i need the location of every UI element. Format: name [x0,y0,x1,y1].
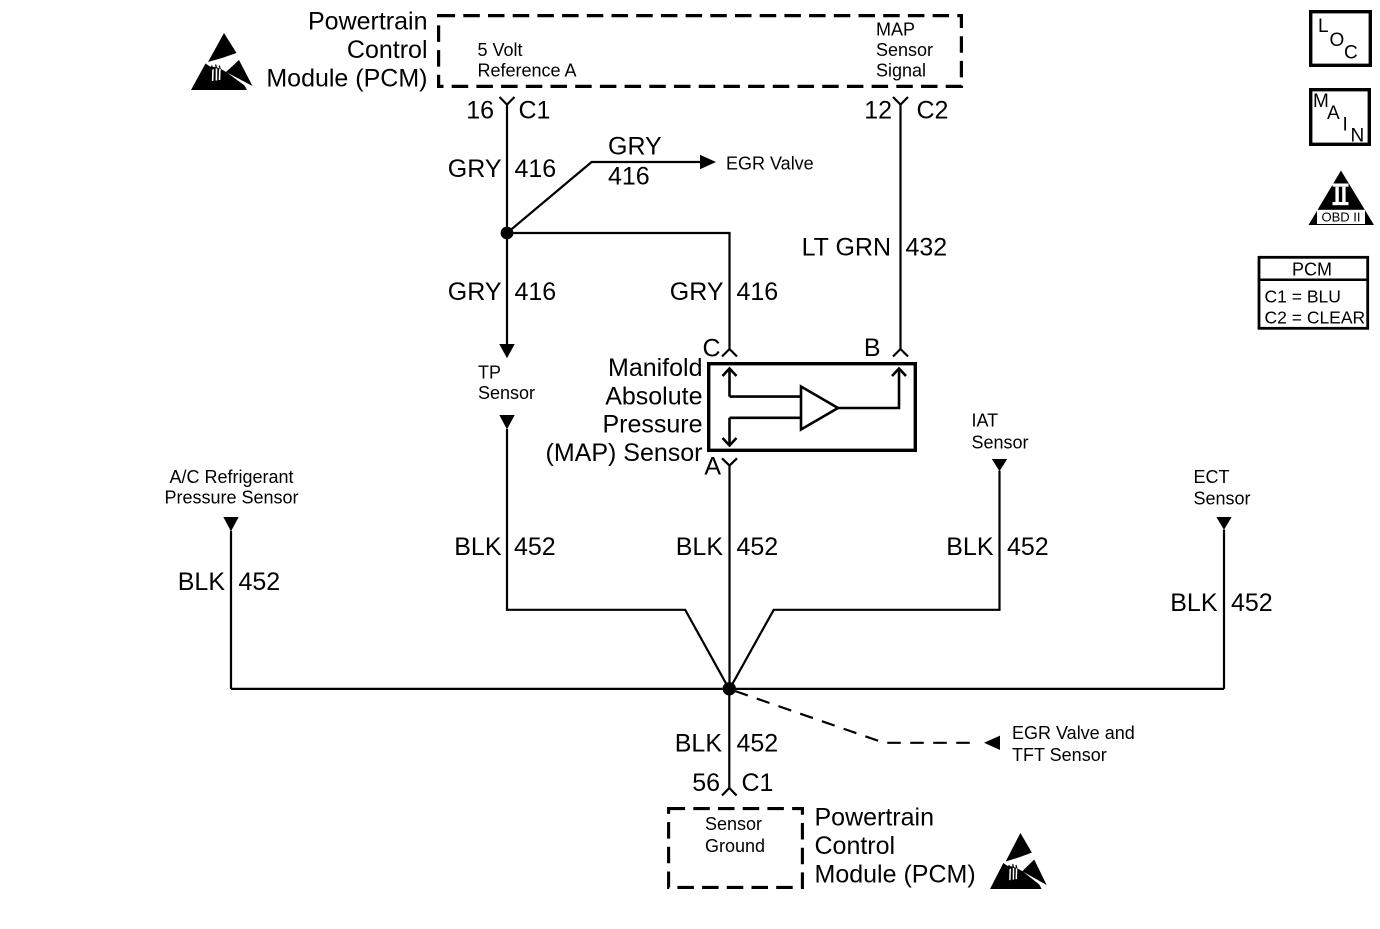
wire GRY 416 from pin 16 C1 down to splice [506,105,508,233]
svg-text:452: 452 [239,568,281,596]
svg-text:OBD II: OBD II [1321,210,1360,225]
arrowhead from EGR Valve and TFT Sensor [984,736,1000,750]
svg-text:Manifold: Manifold [608,354,703,382]
svg-text:C: C [1344,43,1358,64]
ESD sensitivity symbol (top PCM) [191,33,253,90]
svg-text:N: N [1351,126,1365,147]
arrowhead from TP Sensor (BLK stub) [499,415,514,429]
arrowhead from A/C Refrigerant Pressure Sensor (BLK stub) [223,517,238,531]
svg-text:Ground: Ground [705,836,765,856]
splice junction of GRY 416 [501,227,514,240]
svg-text:BLK: BLK [675,730,723,758]
svg-text:BLK: BLK [1170,589,1218,617]
MAP sensor pin C connector fork [722,349,737,357]
dashed wire to EGR Valve and TFT Sensor [735,691,976,743]
arrowhead from IAT Sensor (BLK stub) [992,459,1007,471]
svg-text:Sensor: Sensor [972,433,1029,453]
svg-text:(MAP) Sensor: (MAP) Sensor [546,439,703,467]
svg-text:452: 452 [1007,533,1049,561]
svg-text:416: 416 [608,163,650,191]
MAP internal sense element (double arrow) [723,369,802,446]
svg-text:BLK: BLK [178,568,226,596]
arrowhead to EGR Valve [700,155,716,169]
svg-text:452: 452 [737,730,779,758]
svg-text:Control: Control [347,36,428,64]
svg-text:Pressure Sensor: Pressure Sensor [164,488,298,508]
wire GRY 416 from splice down to TP Sensor [506,233,508,345]
svg-text:Reference A: Reference A [478,61,577,81]
MAIN reference box [1311,90,1370,147]
wire BLK 452 from TP Sensor to ground splice [507,429,729,689]
svg-text:16: 16 [466,97,494,125]
svg-text:416: 416 [515,278,557,306]
svg-text:Sensor: Sensor [705,814,762,834]
svg-text:LT GRN: LT GRN [802,234,891,262]
svg-text:ECT: ECT [1194,467,1230,487]
svg-text:BLK: BLK [676,533,724,561]
svg-text:C1: C1 [742,769,774,797]
svg-text:Pressure: Pressure [602,411,702,439]
wire BLK 452 main horizontal bus [231,688,1224,690]
svg-text:GRY: GRY [448,278,502,306]
svg-text:5 Volt: 5 Volt [478,40,523,60]
svg-text:Sensor: Sensor [876,40,933,60]
wire GRY 416 branch to EGR Valve [507,162,701,233]
svg-text:BLK: BLK [454,533,502,561]
wire BLK 452 from IAT Sensor to ground splice [730,471,1000,689]
svg-text:Sensor: Sensor [1194,489,1251,509]
svg-text:PCM: PCM [1292,260,1332,280]
svg-text:Absolute: Absolute [605,382,702,410]
MAP sensor pin A connector fork [722,458,737,465]
svg-text:B: B [864,334,881,362]
ground splice junction [723,682,736,695]
wire BLK 452 from splice to PCM pin 56 [728,689,730,788]
svg-text:A/C Refrigerant: A/C Refrigerant [169,467,293,487]
wire BLK 452 from A/C sensor down [230,531,232,689]
svg-text:TFT Sensor: TFT Sensor [1012,745,1107,765]
svg-text:MAP: MAP [876,20,915,40]
svg-text:C2 = CLEAR: C2 = CLEAR [1265,308,1366,328]
MAP internal amplifier (op-amp triangle) [801,387,838,430]
MAP sensor pin B connector fork [893,349,908,357]
svg-text:452: 452 [1231,589,1273,617]
wire BLK 452 from ECT sensor down [1223,530,1225,689]
svg-text:IAT: IAT [972,411,999,431]
pin 56 C1 connector fork [722,788,737,796]
svg-text:A: A [1327,103,1340,124]
wire LT GRN 432 from pin 12 C2 to MAP pin B [899,105,901,349]
pin 12 C2 connector fork [893,97,908,105]
svg-text:C1: C1 [519,97,551,125]
svg-text:416: 416 [737,278,779,306]
svg-text:C1 = BLU: C1 = BLU [1265,287,1341,307]
arrowhead from ECT Sensor (BLK stub) [1216,517,1231,530]
pin 16 C1 connector fork [500,97,515,105]
wire GRY 416 branch from splice to MAP pin C [507,233,730,349]
MAP sensor box [709,364,916,451]
svg-text:Sensor: Sensor [478,383,535,403]
svg-text:Powertrain: Powertrain [815,804,935,832]
svg-text:416: 416 [515,155,557,183]
svg-text:O: O [1330,30,1345,51]
MAP internal output wire with arrow [838,369,906,409]
svg-text:Powertrain: Powertrain [308,8,428,36]
svg-text:432: 432 [906,234,948,262]
svg-text:C2: C2 [917,97,949,125]
svg-text:452: 452 [514,533,556,561]
svg-text:EGR Valve and: EGR Valve and [1012,723,1135,743]
svg-text:GRY: GRY [448,155,502,183]
svg-text:Module (PCM): Module (PCM) [815,861,976,889]
svg-text:Signal: Signal [876,61,926,81]
svg-text:C: C [702,335,720,363]
OBD II symbol [1309,171,1375,226]
svg-text:12: 12 [864,97,892,125]
svg-text:GRY: GRY [608,133,662,161]
PCM connector legend table [1259,257,1368,328]
Sensor Ground dashed box (PCM bottom) [669,809,803,888]
arrowhead to TP Sensor [499,344,514,358]
wire BLK 452 from MAP pin A down to ground splice [728,466,730,689]
svg-text:GRY: GRY [670,278,724,306]
LOC reference box [1311,12,1371,66]
svg-text:Control: Control [815,832,896,860]
svg-text:BLK: BLK [946,533,994,561]
svg-text:Module (PCM): Module (PCM) [266,65,427,93]
svg-text:56: 56 [692,769,720,797]
svg-text:L: L [1318,16,1329,37]
PCM connector dashed box (top) [439,16,962,87]
svg-text:TP: TP [478,363,501,383]
svg-text:452: 452 [737,533,779,561]
svg-text:EGR Valve: EGR Valve [726,154,814,174]
svg-text:A: A [704,453,721,481]
ESD sensitivity symbol (bottom PCM) [990,833,1047,889]
svg-text:I: I [1343,115,1348,136]
